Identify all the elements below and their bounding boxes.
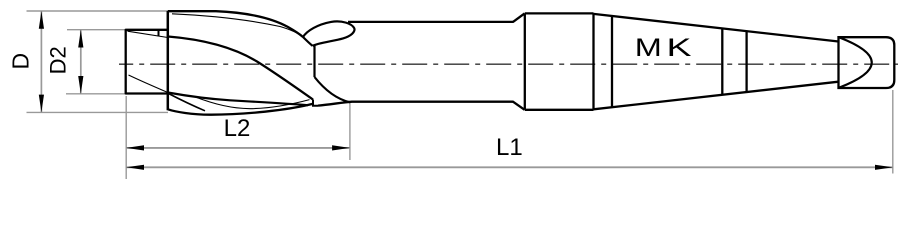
dimension L1 arrow left <box>126 165 144 170</box>
pilot outline <box>126 30 168 94</box>
lower flute edge <box>168 93 308 106</box>
dimension L1 line <box>126 166 893 168</box>
collar left edge <box>524 13 526 109</box>
collar bottom edge <box>525 109 594 111</box>
cutter end face line <box>313 45 315 77</box>
shank top edge <box>348 21 514 23</box>
taper top edge <box>594 14 839 42</box>
svg-text:D: D <box>8 53 34 70</box>
cutter left edge <box>167 11 170 110</box>
pilot face tick <box>158 30 160 36</box>
dimension L2 arrow right <box>332 145 350 150</box>
cutter top edge <box>168 11 303 37</box>
svg-text:L1: L1 <box>496 134 523 161</box>
dimension D2 extension line bottom <box>66 93 128 95</box>
shank chamfer bottom <box>513 102 525 110</box>
taper line 1 <box>611 16 613 107</box>
dimension L2 extension line right <box>349 103 351 160</box>
dimension D line <box>40 11 42 112</box>
tang root curve <box>840 38 872 88</box>
dimension L2 arrow left <box>126 145 144 150</box>
cutter bottom edge <box>168 104 313 115</box>
cutter end notch <box>313 100 318 106</box>
svg-text:L2: L2 <box>224 115 251 142</box>
pilot chamfer line <box>128 31 168 37</box>
collar right edge <box>592 13 594 109</box>
svg-text:D2: D2 <box>45 46 70 74</box>
main flute edge <box>168 37 313 100</box>
taper bottom edge <box>594 82 839 110</box>
tang outline <box>839 37 895 88</box>
shank bottom edge <box>318 102 514 106</box>
svg-text:M: M <box>635 34 662 62</box>
centerline <box>119 63 898 65</box>
dimension L2 line <box>126 147 350 149</box>
cutter top land line <box>172 14 303 37</box>
dimension D arrow up <box>39 11 44 29</box>
dimension D extension line top <box>27 10 169 12</box>
flute runout ellipse bottom <box>303 37 313 46</box>
dimension D extension line bottom <box>27 111 169 113</box>
taper line 3 <box>745 32 747 92</box>
dimension L1 extension line right <box>892 90 894 174</box>
svg-text:K: K <box>666 33 691 61</box>
taper line 2 <box>721 29 723 95</box>
dimension D2 extension line top <box>67 29 126 31</box>
dimension D2 arrow up <box>78 30 83 48</box>
lower corner flute diagonal <box>169 94 206 111</box>
dimension D arrow down <box>39 95 44 113</box>
flute runout lower curve <box>315 77 351 102</box>
dimension L1 arrow right <box>875 165 893 170</box>
dimension D2 arrow down <box>78 76 83 94</box>
collar top edge <box>525 12 594 14</box>
cutter bottom land line <box>194 97 310 109</box>
dimension L2 extension line left <box>125 96 127 179</box>
dimension D2 line <box>80 30 82 94</box>
pilot lower flute edge <box>129 75 168 93</box>
shank chamfer top <box>513 13 525 22</box>
flute runout ellipse top <box>303 21 355 46</box>
